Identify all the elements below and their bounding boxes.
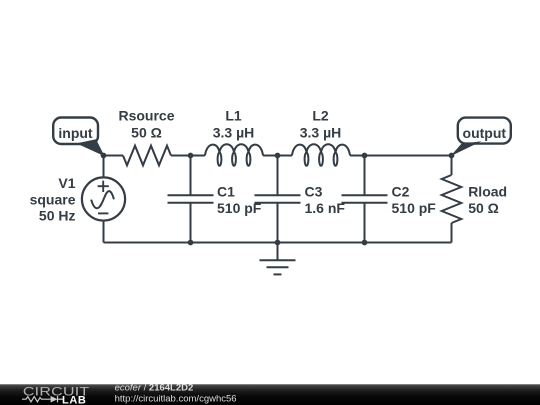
svg-text:1.6 nF: 1.6 nF (305, 200, 346, 216)
svg-text:input: input (58, 125, 93, 141)
svg-text:510 pF: 510 pF (392, 200, 437, 216)
svg-text:L2: L2 (312, 107, 329, 123)
svg-text:C3: C3 (305, 184, 323, 200)
svg-text:C2: C2 (392, 184, 410, 200)
svg-text:50 Ω: 50 Ω (468, 200, 499, 216)
svg-text:50 Hz: 50 Hz (39, 208, 76, 224)
svg-text:L1: L1 (225, 107, 242, 123)
svg-text:Rsource: Rsource (118, 107, 174, 123)
svg-text:V1: V1 (58, 175, 75, 191)
svg-text:3.3 µH: 3.3 µH (213, 125, 255, 141)
svg-text:http://circuitlab.com/cgwhc56: http://circuitlab.com/cgwhc56 (115, 394, 237, 405)
svg-text:510 pF: 510 pF (217, 200, 262, 216)
svg-text:square: square (30, 191, 76, 207)
svg-text:LAB: LAB (62, 395, 86, 405)
svg-text:50 Ω: 50 Ω (131, 125, 162, 141)
svg-text:output: output (463, 125, 507, 141)
svg-text:Rload: Rload (468, 184, 507, 200)
svg-text:ecofer / 2164L2D2: ecofer / 2164L2D2 (115, 382, 194, 393)
svg-text:3.3 µH: 3.3 µH (300, 125, 342, 141)
svg-text:C1: C1 (217, 184, 235, 200)
